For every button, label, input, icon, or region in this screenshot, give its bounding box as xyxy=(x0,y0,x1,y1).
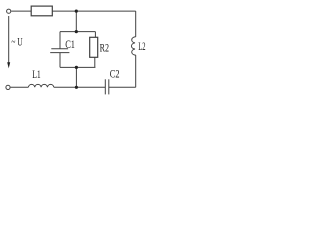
svg-text:L1: L1 xyxy=(32,69,41,81)
svg-text:L2: L2 xyxy=(138,41,145,53)
svg-text:R2: R2 xyxy=(100,43,110,55)
svg-text:C2: C2 xyxy=(110,69,120,81)
svg-text:C1: C1 xyxy=(65,39,75,51)
svg-text:~ U: ~ U xyxy=(11,37,23,49)
